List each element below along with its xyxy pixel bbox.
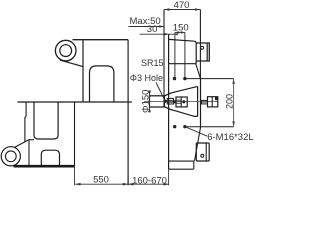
clamp block inner line: [206, 43, 208, 61]
dim line 160-670: [128, 183, 169, 185]
head top edge: [169, 39, 197, 63]
edge B vertical: [168, 34, 170, 169]
head left edge: [82, 40, 84, 102]
upper bracket bottom edge: [169, 63, 196, 65]
bracket diagonal to lower boss: [14, 140, 29, 148]
bolt 2 divider: [211, 97, 213, 107]
arrow 150 right: [181, 31, 185, 33]
550 left extension line: [74, 166, 76, 185]
foot block hole: [201, 154, 204, 157]
bracket stub to slot: [29, 139, 34, 141]
arrow Max:50: [159, 25, 164, 27]
flange bottom line: [185, 126, 233, 128]
flange plate face: [200, 79, 202, 127]
svg-text:200: 200: [225, 94, 235, 109]
diagonal lower body edge: [195, 127, 201, 161]
svg-text:150: 150: [173, 23, 189, 34]
head right edge: [127, 40, 129, 186]
bolt-hole dot top-left: [173, 77, 176, 80]
edge A vertical: [163, 10, 165, 107]
body right edge (470 extension): [199, 10, 201, 79]
svg-text:6-M16*32L: 6-M16*32L: [207, 132, 253, 143]
bolt 2 body: [208, 97, 218, 107]
base dome bump: [41, 150, 59, 165]
lower boss inner circle: [5, 151, 16, 162]
dim phi150 vertical: [149, 90, 151, 112]
bolt 2 shank stripes: [202, 101, 208, 103]
column left edge: [74, 102, 76, 166]
clamp block rect: [196, 43, 209, 61]
quill box: [150, 96, 165, 107]
arrow 470 right: [195, 8, 200, 11]
arrow 30 right-tip: [164, 33, 168, 35]
arrow 550 left: [75, 183, 80, 186]
bracket slot (rounded bottom): [34, 102, 58, 139]
edge B lower extension: [168, 169, 170, 185]
arrow 30 left-tip: [175, 33, 178, 35]
diagonal brace: [196, 64, 201, 79]
bolt 1 dot: [182, 100, 185, 103]
bolt-hole dot top-right: [183, 77, 186, 80]
arrow 200 up: [232, 79, 235, 84]
bolt 1 divider: [180, 97, 182, 107]
svg-text:470: 470: [174, 0, 190, 11]
leader 6-M16: [185, 127, 207, 137]
foot block inner line: [205, 143, 207, 161]
dim line 200: [233, 79, 235, 127]
svg-text:550: 550: [93, 175, 109, 186]
arrow 550 right: [123, 183, 128, 186]
foot block rect: [196, 143, 209, 161]
bolt 2 corner nub: [215, 97, 218, 100]
phi3 hole dot: [164, 100, 167, 103]
bolt-hole dot bottom-left: [173, 125, 176, 128]
svg-text:160-670: 160-670: [132, 175, 167, 186]
dim line 550: [75, 183, 128, 185]
flange top line: [185, 78, 234, 80]
mid horizontal line: [18, 101, 132, 103]
spindle centerline: [144, 101, 218, 103]
foot plate top: [169, 160, 194, 162]
thread insert lines: [167, 100, 173, 102]
clamp block hole: [201, 46, 204, 49]
bell top edge: [165, 86, 198, 95]
foot plate bottom: [169, 168, 194, 170]
lower boss outer circle: [1, 147, 20, 166]
svg-text:SR15: SR15: [141, 58, 164, 68]
dim line 470: [164, 9, 200, 11]
svg-text:Φ150: Φ150: [141, 90, 152, 113]
ext line D to top dot: [174, 32, 176, 78]
leader 30: [140, 33, 178, 35]
ext line E to top dot: [184, 32, 186, 78]
arrow 470 left: [164, 8, 169, 11]
thread insert rect: [167, 98, 173, 104]
arrow 150 left: [175, 31, 179, 33]
bolt 1 nub: [173, 100, 176, 103]
svg-text:Φ3 Hole: Φ3 Hole: [130, 73, 163, 83]
bracket front vertical: [28, 140, 30, 166]
dim line 150: [175, 31, 185, 33]
svg-text:30: 30: [147, 24, 158, 35]
pivot boss inner circle: [60, 45, 72, 57]
bolt 1 body: [176, 97, 187, 107]
bell rim vertical: [197, 86, 199, 116]
head slot (rounded): [90, 66, 114, 102]
base bar (thick): [14, 165, 75, 168]
bolt 2 shank: [202, 100, 208, 104]
arrow 200 down: [232, 121, 235, 126]
bell bottom edge: [165, 107, 198, 117]
foot plate right edge: [193, 161, 195, 169]
arrow 160-670 right: [164, 183, 169, 186]
arrow phi150 up: [148, 91, 151, 96]
leader Max:50: [129, 26, 165, 28]
arrow phi150 down: [148, 107, 151, 112]
bolt-hole dot bottom-right: [183, 125, 186, 128]
head top line: [73, 39, 129, 41]
pivot boss outer circle: [55, 40, 76, 61]
leader phi3: [156, 83, 165, 102]
arrow 160-670 left: [128, 183, 133, 186]
bracket left profile upper: [25, 102, 26, 142]
arm diagonal from boss: [60, 60, 83, 67]
bolt 1 stripes: [176, 100, 181, 103]
